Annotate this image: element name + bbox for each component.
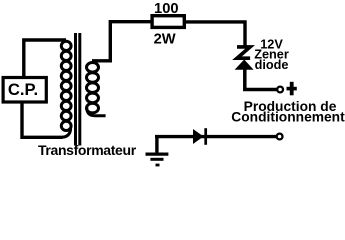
wire: bottom rail from ground junction through diode to lower terminal	[155, 135, 277, 138]
transformer T1 core	[74, 33, 81, 146]
transformer T1 secondary winding	[87, 63, 106, 116]
wire: resistor right to zener top riser	[184, 22, 245, 47]
wire: C.P. top riser and top-left horizontal to primary	[24, 40, 66, 77]
component box C.P.	[3, 78, 46, 103]
terminal node - (circle, lower)	[277, 134, 283, 140]
svg-text:Transformateur: Transformateur	[38, 142, 137, 158]
svg-text:C.P.: C.P.	[8, 80, 38, 99]
plus sign	[287, 87, 297, 91]
zener diode D1 (Z-shaped cathode bar)	[235, 47, 254, 70]
terminal node + (circle)	[277, 87, 283, 93]
resistor R1 100 2W	[152, 1, 184, 47]
svg-text:diode: diode	[255, 58, 289, 72]
svg-text:Conditionnement: Conditionnement	[231, 110, 345, 125]
wire: ground drop	[155, 137, 158, 153]
svg-text:2W: 2W	[154, 31, 176, 47]
transformer T1 primary winding	[61, 41, 71, 137]
diode D2	[193, 128, 206, 145]
wire: secondary top lead up and right to resistor	[92, 22, 153, 61]
wire: zener bottom down and right to + terminal	[245, 69, 278, 90]
wire: C.P. bottom riser and bottom-left horizontal to primary	[22, 102, 63, 137]
svg-text:100: 100	[154, 1, 179, 17]
ground	[146, 154, 169, 165]
label Production de Conditionnement	[231, 99, 345, 124]
label 12V Zener diode	[254, 37, 289, 72]
